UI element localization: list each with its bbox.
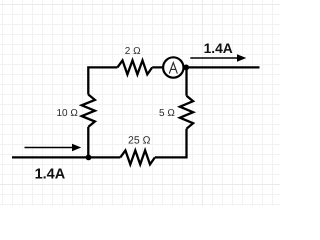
label 25 Ohm [128, 134, 151, 146]
svg-text:10 Ω: 10 Ω [57, 108, 79, 119]
wire right branch upper segment [185, 67, 187, 95]
label 2 Ohm [125, 46, 141, 57]
wire bottom-right segment with corner up to right branch [155, 129, 187, 158]
wire bottom input lead [12, 156, 88, 158]
current arrow top (1.4A out) [190, 54, 246, 61]
label 10 Ohm [57, 108, 79, 119]
resistor 2 Ohm (top branch) [117, 60, 152, 74]
wire bottom-left segment [88, 156, 120, 158]
label 1.4A bottom [35, 167, 66, 183]
wire left branch lower segment [87, 127, 89, 157]
resistor 25 Ohm (bottom branch) [120, 150, 155, 164]
junction node A (top right) [183, 65, 189, 71]
svg-text:2 Ω: 2 Ω [125, 46, 141, 57]
svg-text:1.4A: 1.4A [204, 41, 233, 56]
resistor 5 Ohm (right branch) [180, 96, 193, 129]
svg-text:25 Ω: 25 Ω [128, 134, 151, 146]
ammeter A (circle meter) [163, 57, 183, 77]
wire left branch upper segment with top-left corner [88, 67, 117, 94]
label 1.4A top [204, 41, 233, 56]
junction node B (bottom left) [86, 155, 92, 161]
current arrow bottom (1.4A in) [25, 144, 82, 151]
svg-text:1.4A: 1.4A [35, 167, 66, 183]
resistor 10 Ohm (left branch) [82, 95, 95, 127]
svg-text:5 Ω: 5 Ω [159, 108, 175, 119]
label 5 Ohm [159, 108, 175, 119]
wire top output segment [152, 66, 259, 68]
